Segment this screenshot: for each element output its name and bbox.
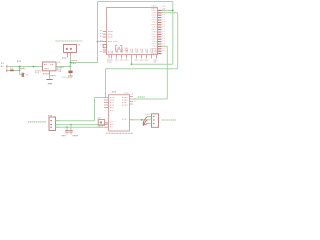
microcontroller U1 box [107, 8, 158, 55]
U1 right pins 19 [158, 10, 162, 53]
label below caps right [73, 135, 79, 137]
green net label on wire [138, 96, 145, 98]
U1 left pins [103, 31, 107, 33]
label D1 [10, 67, 13, 69]
label above oscillator [113, 41, 118, 43]
label R1 value right of junction [72, 60, 78, 62]
connector X3 pin stubs [148, 116, 152, 123]
capacitor C3 [66, 127, 68, 130]
wire regulator output y66 [56, 66, 71, 68]
wire branch to U1 left pin [98, 41, 104, 43]
ground bar below C2 [68, 75, 73, 77]
label IC1 left [35, 70, 41, 72]
regulator IC1 7805 box [43, 62, 57, 71]
node dot cap C4 [70, 124, 72, 126]
connector X3 box [152, 114, 159, 128]
U1 value text inside [125, 47, 129, 49]
resistor R3 box left of U2 [98, 120, 104, 126]
connector X1 pin name labels [1, 62, 4, 64]
label DHT1 left of legs [62, 57, 67, 59]
label below caps left [62, 135, 67, 137]
DHT leg pin 1 [67, 53, 69, 58]
wire cap C1 drop x19.6 [19, 67, 21, 75]
label RTC green right [162, 119, 177, 121]
node junction before regulator [33, 66, 35, 68]
wire VCC top rail [98, 1, 173, 3]
U1 xtal bracket labels [100, 44, 103, 46]
label MICROSD CARD below U2 [106, 132, 133, 134]
wire lower drop x70.4 [69, 67, 71, 71]
label GND red below C2 [67, 77, 73, 79]
label top right outside U1 [163, 5, 166, 7]
wire horizontal y68.8 [106, 68, 178, 70]
DHT leg pin 2 [70, 53, 72, 57]
wire SD to RTC y119.8 [133, 119, 148, 121]
label GND green below C2 [62, 76, 66, 78]
wire SD SPI y99 [132, 98, 168, 100]
capacitor C2 body below rail [68, 71, 72, 74]
wire vertical x177.7 [177, 13, 179, 69]
label GND below right [51, 75, 56, 77]
U1 left pin numbers outside [100, 30, 103, 32]
wire IC1 gnd [49, 75, 51, 79]
node dot on negative wire [19, 70, 21, 72]
node battery junction [19, 66, 21, 68]
connector X2 inner pin pads [50, 120, 52, 121]
U1 right inside labels above pins [152, 5, 157, 7]
U2 left lower pins [105, 123, 109, 127]
label 7805T below [43, 73, 49, 75]
connector X2 pin stubs [56, 121, 60, 128]
wire vertical x167.3 [166, 46, 168, 99]
U2 left upper pins [104, 98, 109, 108]
U1 xtal bracket [103, 45, 106, 48]
wire VCC right drop x172.8 [172, 2, 174, 65]
wire horizontal y62.5 DHT junction to x97.5 [71, 62, 99, 64]
wire horizontal y64.2 [132, 63, 173, 65]
label below R3 [98, 126, 103, 128]
capacitor C1 plate 2 [22, 73, 24, 77]
node dot x131.5 y64.2 [131, 63, 133, 65]
wire jog U1 right pin1 [162, 9, 173, 11]
U2 right pins [130, 97, 134, 120]
IC1 gnd pin stub [49, 71, 51, 75]
label right of C1 [26, 74, 29, 76]
U1 bottom pin names inside rotated [116, 49, 158, 53]
green net label near junction [21, 68, 26, 70]
wire C2 to ground [69, 73, 71, 76]
label DS TEMPERATURE green [28, 121, 46, 123]
wire jog row2 [162, 12, 178, 14]
label right of junction [19, 67, 26, 69]
label left of C2 [60, 66, 64, 68]
sensor DHT1 inner pads [66, 48, 68, 50]
wire elbow into C1 [20, 74, 22, 76]
U1 bottom pin labels below [107, 59, 113, 61]
label DHT22 TEMPERATURE green [56, 40, 83, 42]
wire vertical x105.5 [105, 69, 107, 98]
label above U2 [112, 91, 116, 93]
U1 right pin numbers outside [162, 9, 164, 11]
node junction x97.5 y41.5 [97, 41, 99, 43]
diode D1 body on negative wire [10, 70, 13, 72]
wire horizontal y124.6 [56, 124, 105, 126]
connector X3 inner pin pads [153, 116, 155, 117]
node dot pin1 jog [172, 10, 174, 12]
label above X3 [146, 113, 150, 115]
label right of DHT box [78, 44, 81, 46]
ground below IC1 [46, 79, 52, 81]
wire vertical x94.5 [94, 98, 96, 121]
node DHT junction [70, 62, 72, 64]
wire VCC vertical x97.5 [97, 2, 99, 63]
wire horizontal y120.7 [56, 120, 95, 122]
U1 left pin names inside [108, 31, 113, 33]
U1 right pin names inside [152, 9, 157, 11]
capacitor C4 [70, 125, 72, 131]
red link R3 to U2 pin [105, 122, 109, 124]
connector X1 pin arcs [6, 65, 9, 68]
node dot rail at DHT drop [70, 66, 72, 68]
wire DHT data down x70.5 [70, 56, 72, 67]
wire jog row16 [162, 45, 168, 47]
connector X2 box [49, 117, 56, 131]
label GND text below regulator ground [48, 83, 52, 84]
sensor DHT1 box [64, 45, 77, 53]
microSD module U2 box [109, 95, 130, 131]
label above X2 [48, 115, 52, 117]
U1 bottom pins [109, 55, 157, 59]
IC1 inside pin text VI VO [44, 64, 47, 66]
label VO pin right [58, 61, 61, 63]
label +9V above junction [17, 60, 21, 62]
U2 inside right labels [122, 97, 128, 99]
wire battery positive y66.5 [7, 66, 43, 68]
node dot cap C3 [66, 126, 68, 128]
red fan wires from X3 [143, 116, 148, 126]
label above R3 [98, 117, 102, 119]
capacitor C1 plate 1 [21, 73, 23, 77]
wire jog y97.5 into SD pin1 [95, 97, 107, 99]
wire horizontal y127.2 [56, 126, 105, 128]
U2 inside left labels [110, 97, 115, 99]
U1 internal oscillator brackets [116, 45, 118, 51]
U2 right outside labels [124, 92, 129, 94]
node dot y119.8 [141, 119, 143, 121]
wire U1 pin x131.5 drop [131, 59, 133, 65]
wire battery negative y70.5 [7, 70, 20, 72]
